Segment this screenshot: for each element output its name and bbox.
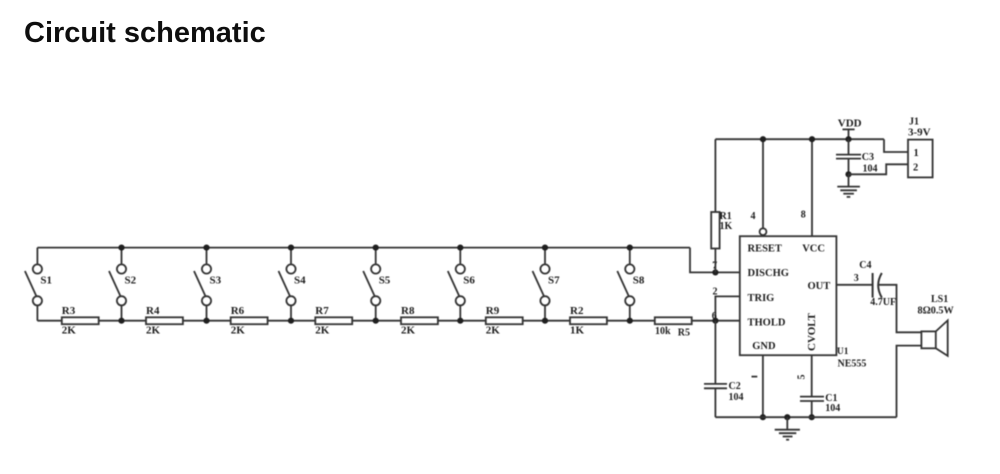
- svg-text:3: 3: [854, 273, 859, 284]
- switch S4: [279, 248, 307, 321]
- svg-text:2K: 2K: [401, 325, 416, 337]
- junction node C3 bottom: [845, 171, 851, 177]
- svg-text:CVOLT: CVOLT: [806, 312, 818, 351]
- op-amp U1 NE555 timer IC body: [740, 236, 867, 369]
- svg-text:1K: 1K: [570, 325, 585, 337]
- junction node at bottom rail / S3: [203, 318, 209, 324]
- junction node at top rail / S2: [118, 245, 124, 251]
- capacitor C3 104: [836, 139, 878, 174]
- wire GND pin 1: [752, 355, 763, 417]
- svg-text:2K: 2K: [315, 325, 330, 337]
- svg-text:TRIG: TRIG: [748, 293, 775, 304]
- ground symbol main: [775, 417, 800, 440]
- svg-text:R4: R4: [146, 305, 160, 317]
- wire bottom ground rail: [715, 416, 896, 418]
- wire / pin 8 VCC: [801, 139, 812, 236]
- junction node at bottom rail / S2: [118, 318, 124, 324]
- resistor R9 2K: [486, 305, 523, 336]
- svg-text:R7: R7: [315, 305, 329, 317]
- junction node at bottom rail / S5: [373, 318, 379, 324]
- junction node at bottom rail / S8: [627, 318, 633, 324]
- resistor R1 1K (vertical): [711, 139, 732, 272]
- wire VDD top rail: [715, 138, 884, 140]
- svg-text:4: 4: [751, 211, 756, 222]
- switch S8: [617, 248, 645, 321]
- junction node main ground: [784, 414, 790, 420]
- svg-text:C4: C4: [859, 260, 871, 271]
- svg-text:S6: S6: [463, 275, 475, 287]
- svg-text:2: 2: [913, 162, 918, 173]
- resistor R6 2K: [231, 305, 268, 336]
- svg-text:1K: 1K: [720, 221, 733, 232]
- svg-text:S7: S7: [548, 275, 560, 287]
- svg-text:2K: 2K: [62, 325, 77, 337]
- resistor R7 2K: [315, 305, 352, 336]
- svg-text:OUT: OUT: [808, 281, 831, 292]
- svg-text:S2: S2: [125, 275, 137, 287]
- svg-text:RESET: RESET: [748, 244, 782, 255]
- resistor R8 2K: [401, 305, 438, 336]
- svg-text:R5: R5: [678, 328, 690, 339]
- resistor R3 2K: [62, 305, 99, 336]
- svg-text:10k: 10k: [655, 326, 671, 337]
- svg-text:1: 1: [914, 148, 919, 159]
- ground symbol under C3: [837, 174, 860, 197]
- switch S7: [533, 248, 561, 321]
- wire top rail of keys: [37, 247, 690, 249]
- junction node at top rail / S7: [542, 245, 548, 251]
- junction node VDD / C3: [845, 136, 851, 142]
- switch S3: [194, 248, 222, 321]
- junction node at top rail / S4: [288, 245, 294, 251]
- wire / pin 4 RESET with bubble: [751, 139, 767, 235]
- svg-text:104: 104: [863, 163, 878, 174]
- junction node pin4 / VDD rail: [760, 136, 766, 142]
- resistor R4 2K: [146, 305, 183, 336]
- svg-text:4.7UF: 4.7UF: [870, 297, 896, 308]
- junction node R1 / pin7: [712, 269, 718, 275]
- svg-text:2K: 2K: [231, 325, 246, 337]
- svg-text:THOLD: THOLD: [748, 317, 786, 328]
- wire speaker bottom terminal to ground rail: [897, 346, 922, 418]
- svg-text:U1: U1: [837, 347, 849, 357]
- svg-text:S4: S4: [294, 275, 306, 287]
- junction node GND pin / bottom rail: [760, 414, 766, 420]
- junction node at bottom rail / S4: [288, 318, 294, 324]
- svg-text:R9: R9: [486, 305, 500, 317]
- wire TRIG pin 2: [713, 286, 740, 320]
- svg-text:104: 104: [825, 403, 840, 414]
- junction node at top rail / S5: [373, 245, 379, 251]
- power symbol VDD: [838, 117, 862, 139]
- junction node at bottom rail / S6: [457, 318, 463, 324]
- svg-text:C3: C3: [862, 152, 874, 163]
- svg-text:GND: GND: [752, 341, 776, 352]
- svg-text:8: 8: [801, 210, 806, 221]
- svg-text:8Ω0.5W: 8Ω0.5W: [918, 305, 955, 316]
- resistor R5 10k: [655, 317, 692, 338]
- switch S5: [363, 248, 391, 321]
- svg-text:VDD: VDD: [838, 117, 862, 129]
- svg-text:NE555: NE555: [838, 359, 867, 370]
- wire OUT pin 3: [836, 273, 872, 285]
- junction node at top rail / S3: [203, 245, 209, 251]
- wire top rail corner to DISCHG (pin 7 net): [690, 248, 740, 273]
- svg-text:R6: R6: [231, 305, 245, 317]
- svg-text:S3: S3: [210, 275, 222, 287]
- svg-text:3-9V: 3-9V: [908, 127, 931, 139]
- svg-text:6: 6: [712, 311, 717, 322]
- wire CVOLT pin 5 / capacitor C1 104: [796, 355, 840, 417]
- speaker LS1: [918, 294, 955, 356]
- svg-text:C2: C2: [729, 381, 741, 392]
- wire to J1 pin 2: [849, 164, 909, 174]
- svg-text:5: 5: [796, 375, 807, 380]
- svg-text:LS1: LS1: [931, 294, 948, 305]
- capacitor C4 4.7UF (polarized): [859, 260, 896, 308]
- svg-text:104: 104: [729, 392, 744, 403]
- junction node at top rail / S6: [457, 245, 463, 251]
- wire C4 to speaker top terminal: [879, 285, 922, 333]
- svg-text:S8: S8: [633, 275, 645, 287]
- junction node at top rail / S8: [627, 245, 633, 251]
- svg-text:2K: 2K: [486, 325, 501, 337]
- svg-text:R3: R3: [62, 305, 76, 317]
- resistor R2 1K: [570, 305, 607, 336]
- junction node pin8 / VDD rail: [809, 136, 815, 142]
- svg-text:2K: 2K: [146, 325, 161, 337]
- connector J1 3-9V: [908, 116, 933, 177]
- junction node at bottom rail / S7: [542, 318, 548, 324]
- svg-text:S1: S1: [40, 275, 52, 287]
- svg-text:S5: S5: [379, 275, 391, 287]
- svg-text:R8: R8: [401, 305, 415, 317]
- junction node pin6/TRIG/C2: [712, 318, 718, 324]
- wire bottom resistor rail (pin 6 / THOLD net): [37, 320, 739, 322]
- svg-text:2: 2: [713, 286, 718, 297]
- switch S6: [448, 248, 476, 321]
- junction node CVOLT / bottom rail: [809, 414, 815, 420]
- capacitor C2 104: [704, 321, 744, 418]
- svg-text:DISCHG: DISCHG: [748, 268, 789, 279]
- svg-text:VCC: VCC: [802, 244, 825, 255]
- switch S1: [25, 248, 52, 321]
- switch S2: [109, 248, 137, 321]
- wire to J1 pin 1: [884, 139, 908, 152]
- svg-text:R2: R2: [570, 305, 584, 317]
